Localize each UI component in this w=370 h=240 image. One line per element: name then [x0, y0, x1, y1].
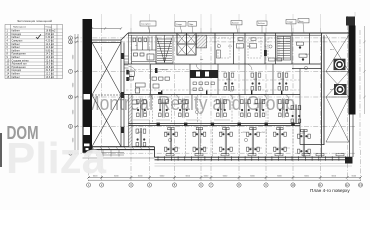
svg-text:Сходи: Сходи: [176, 24, 182, 26]
bottom dimension lines: [88, 177, 361, 180]
left edge artifact line: [0, 133, 2, 167]
svg-text:вент.: вент.: [330, 89, 335, 91]
left dimension ticks: [75, 37, 78, 155]
bottom dimension ticks: [87, 176, 362, 179]
svg-text:Сан.вузол: Сан.вузол: [141, 24, 151, 26]
bottom wall of left wing: [83, 147, 155, 157]
bar bottom corner block: [83, 147, 93, 153]
svg-text:Кабінет: Кабінет: [258, 22, 265, 25]
middle band: wall y64: [124, 63, 321, 65]
partition pier blobs on row wall: [157, 123, 295, 126]
checkmark annotation: [36, 34, 41, 38]
wall y144.5 right rooms: [300, 145, 324, 158]
svg-text:Вент.: Вент.: [299, 21, 304, 23]
corridor guide dashed lines: [126, 70, 300, 91]
svg-text:Площа: Площа: [46, 27, 53, 29]
elevator lobby hatched shaft: [197, 35, 207, 48]
left axis letters: [70, 37, 72, 155]
staircase 2: [277, 36, 291, 60]
left shaft wall (solid black bar): [83, 19, 93, 147]
terrace edge line: [155, 165, 353, 167]
radiators along bottom windows: [166, 154, 344, 156]
top extension stubs: [102, 12, 355, 30]
elevator block: [177, 33, 196, 55]
right section wall x321: [322, 33, 325, 145]
staircase 1: [156, 35, 173, 63]
entry steps below left wing: [96, 150, 124, 157]
svg-text:Экспликация помещений: Экспликация помещений: [17, 19, 52, 23]
fan unit 1: [334, 59, 346, 70]
svg-text:Сходи: Сходи: [287, 22, 293, 24]
ramp cross braces: [92, 43, 121, 147]
bottom axis numbers: [88, 183, 363, 187]
bottom dimension figures: [93, 175, 357, 177]
top band partition walls: [215, 33, 292, 64]
misc dimension specks inside plan: [133, 120, 290, 148]
room schedule table: [5, 19, 63, 79]
top-right small office desks: [292, 33, 322, 69]
svg-text:13.6 м2: 13.6 м2: [46, 76, 55, 79]
main top outer wall: [128, 32, 352, 34]
bottom outer window wall: [155, 157, 353, 160]
bottom-right corner wall block: [345, 157, 353, 164]
right solid black wall bar: [349, 26, 356, 115]
svg-text:Найменування: Найменування: [13, 26, 26, 29]
corridor door leaf: [155, 68, 158, 73]
top rooms furniture: [217, 38, 282, 61]
corridor wall y94.5: [124, 94, 300, 96]
right edge dimension line: [363, 26, 366, 114]
tiny room annotation texts: [135, 45, 335, 135]
office column wall left: [129, 95, 133, 147]
svg-text:вент.: вент.: [330, 49, 335, 51]
lower office row desks: [136, 128, 146, 147]
table cell texts: [7, 26, 56, 79]
dark WC core in middle band: [190, 70, 218, 78]
room number tags: [143, 44, 307, 141]
axis grid: horizontal dash-dot lines: [74, 38, 356, 153]
fan unit 2: [334, 84, 347, 95]
svg-text:План 4-го поверху: План 4-го поверху: [310, 188, 350, 193]
svg-text:Кабінет: Кабінет: [232, 22, 239, 25]
left dim rotated figures: [73, 54, 75, 142]
office door arcs on corridor wall: [148, 64, 289, 100]
ramp outline: [92, 33, 128, 147]
callout tiny texts: [141, 21, 304, 26]
right axis faint line: [359, 30, 361, 150]
bottom axis bubbles: [87, 183, 363, 187]
svg-text:с/в: с/в: [135, 45, 138, 47]
door opening in left bar: [84, 94, 91, 100]
right X-braced strip: [326, 35, 349, 142]
left dimension lines: [75, 34, 78, 155]
middle band desks right: [224, 72, 234, 91]
svg-text:Кабінет: Кабінет: [12, 76, 21, 79]
wall between office rows: [129, 124, 301, 126]
left axis bubbles: [69, 36, 73, 155]
upper office partitions (dashed): [153, 95, 269, 124]
callout label boxes above plan: [140, 19, 309, 27]
middle band furniture left: [152, 77, 170, 88]
WC block: [129, 33, 157, 64]
svg-text:Pliza: Pliza: [6, 134, 107, 183]
dashed ceiling rectangles in top rooms: [218, 38, 279, 58]
dimension line above ramp: [91, 27, 122, 30]
door leaves on corridor wall: [161, 91, 282, 95]
svg-text:Montreal Realty and Group: Montreal Realty and Group: [85, 93, 295, 115]
svg-text:коридор: коридор: [160, 69, 169, 71]
svg-text:Ліфт: Ліфт: [189, 23, 193, 26]
lower office partitions: [186, 126, 293, 158]
middle band partitions: [151, 64, 301, 145]
right lower double wall: [350, 115, 354, 158]
side stair beside ramp: [124, 56, 129, 68]
ramp wall piers: [121, 53, 124, 133]
kitchenette room fixtures: [126, 70, 162, 95]
upper office row desks: [137, 99, 147, 118]
axis grid: vertical dash-dot lines: [89, 16, 361, 181]
